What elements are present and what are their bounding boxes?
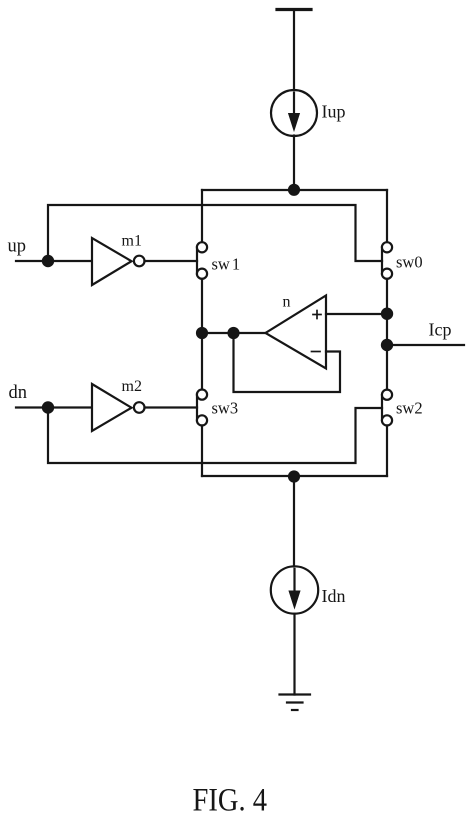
wire: dn control loop to sw2 [48, 408, 382, 464]
node: bottom junction [288, 471, 299, 482]
svg-text:sw0: sw0 [396, 253, 423, 272]
switch sw0 [382, 242, 392, 279]
wire: Iup to top junction [293, 136, 295, 191]
wire: left rail lower [201, 426, 203, 477]
node: top junction [288, 184, 299, 195]
switch sw2 [382, 390, 392, 426]
node: plus input junction [381, 308, 392, 319]
wire: bottom rail [202, 475, 387, 477]
wire: right rail lower [386, 426, 388, 477]
current source Idn [271, 566, 318, 613]
svg-text:Icp: Icp [429, 320, 452, 340]
svg-text:sw1: sw1 [212, 255, 241, 274]
wire: bottom junction to Idn [293, 477, 295, 567]
wire: top rail [202, 189, 387, 191]
op-amp U1 [266, 296, 327, 369]
wire: op-amp plus input [326, 313, 387, 315]
wire: m2 output to sw3 [145, 406, 198, 408]
svg-text:up: up [8, 237, 27, 257]
svg-text:sw2: sw2 [396, 399, 423, 418]
wire: op-amp output [202, 332, 266, 334]
wire: supply to Iup [293, 10, 295, 91]
ground [280, 695, 311, 711]
switch sw1 [197, 242, 207, 279]
wire: dn input [16, 406, 92, 408]
wire: up input [16, 260, 92, 262]
inverter m2 [92, 384, 145, 431]
power supply bar [277, 8, 311, 11]
svg-text:m1: m1 [122, 233, 142, 250]
node: Icp junction [381, 339, 392, 350]
node: dn input junction [42, 402, 53, 413]
wire: Idn to ground [293, 614, 295, 695]
switch sw3 [197, 390, 207, 426]
inverter m1 [92, 238, 145, 285]
svg-text:Idn: Idn [322, 586, 346, 606]
wire: left rail middle [201, 279, 203, 390]
wire: feedback loop [234, 333, 341, 392]
node: up input junction [42, 255, 53, 266]
node: feedback tap junction [228, 327, 239, 338]
svg-text:dn: dn [9, 383, 28, 403]
svg-text:n: n [283, 294, 291, 311]
current source Iup [271, 90, 317, 136]
wire: right rail middle [386, 279, 388, 390]
svg-text:Iup: Iup [322, 102, 346, 122]
wire: Icp output [387, 344, 464, 346]
node: output junction on left rail [196, 327, 207, 338]
svg-text:sw3: sw3 [212, 399, 239, 418]
svg-text:m2: m2 [122, 378, 142, 395]
wire: up control loop to sw0 [48, 205, 382, 261]
wire: left rail upper [201, 190, 203, 243]
svg-text:FIG. 4: FIG. 4 [193, 783, 268, 819]
wire: right rail upper [386, 190, 388, 243]
wire: m1 output to sw1 [145, 260, 198, 262]
